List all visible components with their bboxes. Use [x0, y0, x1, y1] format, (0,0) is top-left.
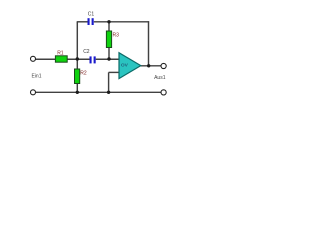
svg-text:Aus1: Aus1	[154, 75, 166, 81]
svg-text:R2: R2	[80, 71, 87, 77]
svg-text:Ein1: Ein1	[31, 73, 41, 79]
svg-text:C2: C2	[83, 49, 90, 55]
svg-text:OV: OV	[121, 62, 129, 68]
svg-text:R1: R1	[57, 50, 64, 56]
svg-text:R3: R3	[112, 33, 119, 39]
svg-text:C1: C1	[88, 11, 95, 17]
